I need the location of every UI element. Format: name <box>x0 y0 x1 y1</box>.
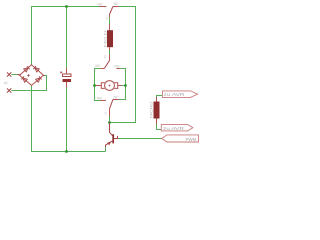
node junction bottom <box>65 150 68 153</box>
svg-text:NC: NC <box>96 64 101 68</box>
wire NO2 right bridge side <box>119 69 126 100</box>
relay contact K1-3 C pin <box>109 108 111 116</box>
bridge AC2 pin stub <box>43 74 44 76</box>
relay contact K1-1 C pin <box>109 14 111 18</box>
wire capacitor bottom branch <box>66 88 68 152</box>
relay contact K1-2 NO pin stub <box>116 68 120 70</box>
bridge plus mark <box>27 74 30 77</box>
svg-text:zu AVR: zu AVR <box>163 126 184 131</box>
motor right brush bracket <box>114 83 118 89</box>
tacho generator rect <box>154 102 160 119</box>
wire C1 to coil <box>109 17 111 24</box>
wire NC1 to right rail <box>110 7 136 123</box>
relay contact K1-2 lever <box>104 61 109 69</box>
motor left brush bracket <box>101 83 105 89</box>
relay contact K1-2 C pin <box>109 55 111 61</box>
tacho bottom pin <box>156 119 158 125</box>
capacitor bottom pin <box>66 82 68 88</box>
motor right pin <box>118 85 122 87</box>
X mark AC1 <box>7 72 11 76</box>
X mark AC2 <box>7 88 11 92</box>
wire AC1 input <box>11 74 17 76</box>
capacitor top pin <box>66 68 68 74</box>
coil FELD top pin <box>109 24 111 30</box>
capacitor C1 bottom plate <box>63 79 72 82</box>
tacho top pin <box>156 97 158 102</box>
svg-text:FELD: FELD <box>103 30 107 48</box>
svg-text:zu AVR: zu AVR <box>164 92 185 97</box>
bridge rectifier B1 diamond <box>20 65 44 86</box>
transistor Q1 emitter arrow <box>107 141 111 145</box>
wire emitter down <box>105 147 107 152</box>
relay contact K1-1 lever <box>110 7 113 15</box>
relay contact K1-2 NC pin stub <box>101 68 105 70</box>
svg-text:NO: NO <box>114 64 119 68</box>
flag PWM <box>162 135 199 142</box>
svg-text:PWM: PWM <box>186 137 197 142</box>
node junction top <box>65 5 68 8</box>
transistor Q1 emitter <box>106 141 113 145</box>
coil FELD <box>107 30 113 47</box>
wire capacitor top branch <box>66 7 68 68</box>
wire motor left <box>95 85 97 87</box>
wire AC2 input around bridge <box>11 76 46 91</box>
svg-text:NO: NO <box>97 96 102 100</box>
transistor Q1 base pin <box>114 136 118 139</box>
transistor Q1 base bar <box>112 134 114 143</box>
diode upper-right <box>33 66 39 72</box>
diode lower-right <box>36 76 42 82</box>
svg-text:NC: NC <box>114 2 119 6</box>
svg-text:TACHO: TACHO <box>150 101 154 119</box>
flag zu AVR top <box>162 91 197 98</box>
motor plus mark <box>108 84 110 86</box>
wire motor right <box>121 85 125 87</box>
svg-text:AC: AC <box>3 81 9 85</box>
wire tacho top to flag <box>157 96 163 98</box>
flag zu AVR bottom <box>161 125 193 131</box>
relay contact K1-1 NO pin stub <box>100 6 107 8</box>
relay contact K1-1 NC pin stub <box>113 6 119 8</box>
wire C3 to collector node <box>109 116 111 123</box>
coil FELD bottom pin <box>109 47 111 50</box>
relay contact K1-3 NC pin stub <box>113 99 119 101</box>
transistor Q1 emitter pin <box>105 145 107 147</box>
capacitor C1 top plate <box>63 74 72 77</box>
wire coil to C2 <box>109 50 111 55</box>
transistor Q1 collector pin <box>110 123 113 137</box>
relay contact K1-3 NO pin stub <box>101 100 106 102</box>
diode upper-left <box>24 66 30 72</box>
capacitor plus mark <box>60 71 62 73</box>
svg-text:NC: NC <box>114 95 119 99</box>
wire NC2 left bridge side <box>95 69 101 101</box>
motor left pin <box>96 85 101 87</box>
relay contact K1-3 lever <box>110 100 113 109</box>
node motor left junction <box>93 84 96 87</box>
bridge AC1 pin stub <box>18 74 21 76</box>
wire tacho bottom to flag <box>157 124 162 130</box>
diode lower-left <box>21 76 27 82</box>
motor M1 circle <box>105 81 115 91</box>
wire base to PWM flag <box>118 138 162 140</box>
node motor right junction <box>124 84 127 87</box>
svg-text:NO: NO <box>97 2 102 6</box>
wire bridge minus down to bottom rail <box>32 85 106 151</box>
wire top horizontal net <box>32 7 100 65</box>
node collector junction <box>108 121 111 124</box>
